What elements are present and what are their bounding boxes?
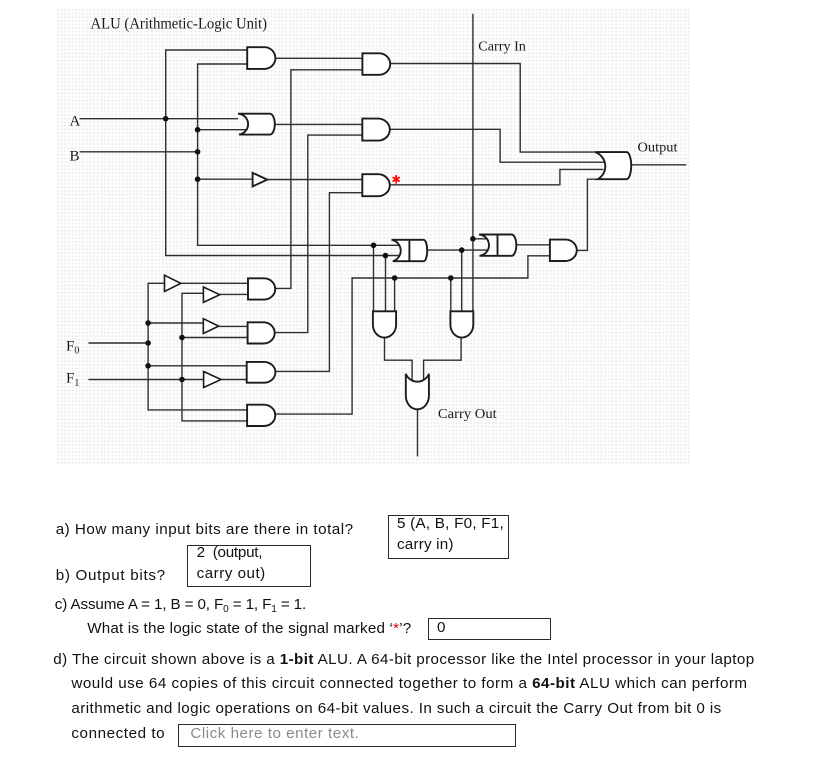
and-gate U4 (AND enable 0) (362, 53, 390, 75)
node B bus junction at inverter U3 input (195, 176, 201, 182)
wire enable tap down to carry AND U8 (450, 278, 452, 311)
and-gate U1 (A AND B) (247, 47, 275, 69)
and-gate D2 (decoder AND 2) (248, 322, 275, 343)
buffer B3 (decoder F0 buffer row 2) (203, 319, 218, 334)
and-gate D3 (decoder AND 3) (247, 362, 276, 383)
or-gate U2 (A OR B) (238, 114, 275, 135)
svg-text:F1: F1 (66, 371, 79, 389)
wire net F0 input line (89, 342, 149, 344)
node junction XOR U10 output tap (459, 247, 465, 253)
node junction F0 bus at AND D3 row (145, 363, 151, 369)
node junction F1 bus at AND D2 row (179, 335, 185, 341)
buffer B1 (decoder F0 buffer) (165, 275, 181, 291)
node A junction on A line (163, 116, 169, 122)
buffer B4 (decoder F1 buffer row 2) (204, 372, 221, 388)
slide background with dot grid (56, 8, 690, 464)
wire OR U2 output to AND U5 input 1 (275, 123, 363, 125)
wire F0 bus tap to decoder AND D3 input 1 (148, 365, 247, 367)
and-gate U7 (carry AND A.B, pointing down) (373, 311, 396, 337)
xor-gate U10 (A XOR B) (392, 240, 428, 261)
wire carry AND U8 output to carry OR U9 (424, 337, 462, 380)
wire buffer B1 output to decoder AND D1 input 1 (181, 282, 248, 284)
node junction enable tap 2 (448, 275, 454, 281)
wire F1 bus tap to decoder AND D2 input 2 (182, 337, 248, 339)
svg-text:Carry Out: Carry Out (438, 407, 497, 422)
wire net A bus: up to AND U1 input 1, down to XOR U10 input 2 (166, 50, 400, 256)
and-gate U12 (sum enable 3) (550, 240, 577, 261)
wire decoder AND D3 output up to AND U6 input 2 (275, 193, 362, 372)
svg-text:Output: Output (638, 141, 678, 156)
wire Carry In tap to XOR U11 input 1 (473, 238, 487, 240)
svg-text:F0: F0 (66, 339, 79, 357)
and-gate U6 (NOT enable 2) (362, 174, 390, 196)
buffer B2 (decoder F1 buffer) (203, 287, 219, 302)
wire F0 bus: to buffer B1 input and down to decoder AND D4 input 1 (148, 283, 247, 410)
question a text (56, 521, 354, 538)
node junction F1 bus at F1 line (179, 377, 185, 383)
wire tap XOR U10 output down to carry AND U8 (461, 250, 463, 311)
answer box c (428, 618, 551, 640)
wire buffer B3 output to decoder AND D2 input 1 (219, 325, 248, 327)
inverter U3 (NOT B) (253, 173, 268, 187)
wire F1 bus: to buffer B2 input and down to decoder AND D4 input 2 (182, 293, 247, 421)
wire F0 bus tap to buffer B3 input (148, 322, 203, 324)
node junction Carry In tap at XOR U11 input (470, 236, 476, 242)
svg-text:Carry In: Carry In (478, 40, 526, 55)
and-gate D4 (decoder AND 4) (247, 405, 275, 426)
wire sum enable from decoder AND D4 to AND U12 input 2 (275, 256, 550, 414)
node junction F0 bus at buffer B3 row (145, 320, 151, 326)
wire buffer B4 output to decoder AND D3 input 2 (221, 379, 247, 381)
svg-text:ALU (Arithmetic-Logic Unit): ALU (Arithmetic-Logic Unit) (91, 15, 268, 32)
node B bus junction at B line (195, 149, 201, 155)
node junction tap B at XOR U10 input (383, 253, 389, 259)
marker red asterisk on AND U6 output (393, 176, 399, 183)
wire decoder AND D1 output up to AND U4 input 2 (275, 70, 362, 289)
wire net F1 input line (89, 379, 183, 381)
wire decoder AND D2 output up to AND U5 input 2 (275, 135, 363, 333)
wire AND U12 output to output OR U13 input 4 (577, 179, 599, 250)
wire enable tap down to carry AND U7 (394, 278, 396, 311)
wire B bus to OR U2 input 2 (198, 129, 247, 131)
wire tap B down to carry AND U7 (385, 256, 387, 312)
node junction F0 bus at F0 line (145, 340, 151, 346)
wire net Carry In vertical (472, 14, 474, 312)
wire carry AND U7 output to carry OR U9 (385, 337, 413, 380)
and-gate U8 (carry AND xor.cin, pointing down) (450, 311, 473, 337)
svg-text:B: B (70, 149, 80, 165)
wire output OR U13 to Output (631, 164, 686, 166)
svg-text:A: A (70, 114, 81, 130)
node junction enable tap 1 (392, 275, 398, 281)
wire AND U6 output to output OR U13 input 3 (390, 169, 604, 184)
wire carry OR U9 output to Carry Out (417, 409, 419, 456)
question c text (55, 596, 306, 615)
wire buffer B2 output to decoder AND D1 input 2 (220, 293, 248, 295)
wire inverter U3 output to AND U6 input 1 (267, 179, 362, 181)
wire XOR U10 output to XOR U11 input 2 (427, 249, 488, 251)
question b text (56, 567, 166, 584)
and-gate D1 (decoder AND 1) (248, 278, 275, 299)
wire AND U1 output to AND U4 input 1 (275, 57, 362, 59)
wire AND U4 output to output OR U13 input 1 (390, 64, 596, 153)
wire AND U5 output to output OR U13 input 2 (390, 129, 604, 162)
question d paragraph (53, 651, 754, 668)
or-gate U9 (carry out OR, pointing down) (406, 374, 429, 410)
wire F1 bus tap to buffer B4 input (182, 379, 204, 381)
and-gate U5 (OR enable 1) (362, 119, 390, 141)
node B bus junction at OR U2 input (195, 127, 201, 133)
answer box d (178, 724, 516, 747)
wire net A from input A to OR gate U2 input 1 (80, 118, 239, 120)
node junction tap A at XOR U10 input (371, 243, 377, 249)
wire net B bus: up to AND U1 input 2, down to XOR U10 input 1 (198, 64, 400, 245)
wire net B from input B to B bus (80, 151, 198, 153)
wire B bus to inverter U3 input (198, 178, 253, 180)
xor-gate U11 (sum XOR carry in) (479, 235, 516, 256)
wire tap A down to carry AND U7 (373, 245, 375, 311)
wire XOR U11 output to AND U12 input 1 (516, 244, 550, 246)
or-gate U13 (output OR) (595, 152, 631, 179)
answer box b (187, 545, 311, 587)
answer box a (388, 515, 509, 559)
